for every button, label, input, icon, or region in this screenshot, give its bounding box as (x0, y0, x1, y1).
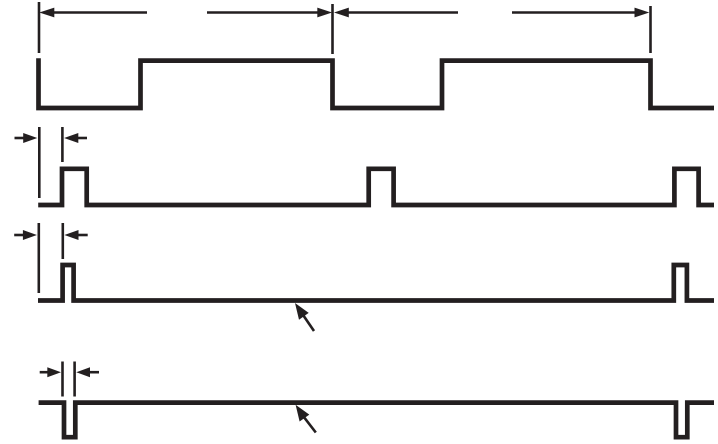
callout arrow pointing at row-4 topline (296, 405, 316, 433)
extension tick, row-4 pulse-width dimension, left (61, 362, 64, 397)
clock waveform (row 1) (39, 58, 715, 108)
extension tick, row-4 pulse-width dimension, right (73, 362, 76, 397)
dimension arrow, period 1, right half (arrowhead points right at middle tick) (207, 8, 332, 18)
callout arrow pointing at row-3 baseline (295, 303, 314, 331)
extension tick, row-3 delay dimension, left (37, 223, 40, 293)
dimension arrow, row 4, pointing right at left tick (40, 367, 61, 377)
pulse waveform (row 2, wide pulses) (38, 169, 714, 205)
extension tick, clock period dimension, left (38, 2, 41, 53)
dimension arrow, period 1, left half (arrowhead points left at tick) (39, 8, 147, 18)
dimension arrow, row 3, pointing left at right tick (64, 230, 87, 240)
dimension arrow, row 2, pointing right at left tick (15, 133, 38, 143)
dimension arrow, row 2, pointing left at right tick (64, 133, 87, 143)
pulse waveform (row 3, narrow pulses) (38, 265, 714, 301)
dimension arrow, period 2, right half (arrowhead points right at right tick) (512, 8, 649, 18)
extension tick, row-2 delay dimension, right (at pulse rise) (61, 127, 64, 162)
dimension arrow, row 4, pointing left at right tick (76, 367, 99, 377)
inverted pulse waveform (row 4, notches) (39, 403, 714, 438)
extension tick, clock period dimension, middle (331, 4, 334, 54)
extension tick, row-2 delay dimension, left (at clock edge) (38, 127, 41, 198)
extension tick, clock period dimension, right (649, 6, 652, 53)
extension tick, row-3 delay dimension, right (61, 223, 64, 259)
dimension arrow, row 3, pointing right at left tick (14, 230, 37, 240)
dimension arrow, period 2, left half (arrowhead points left at middle tick) (334, 8, 458, 18)
